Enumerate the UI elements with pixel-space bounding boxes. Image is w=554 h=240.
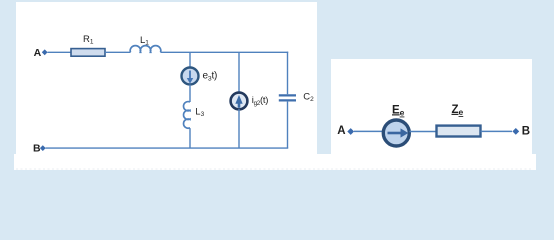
source e3 (182, 68, 199, 85)
bottom wire (46, 147, 289, 149)
node A (right circuit) (337, 125, 354, 137)
node A (left circuit) (34, 47, 48, 59)
left panel (16, 2, 317, 170)
resistor R1 (71, 34, 105, 56)
source ig2 (231, 93, 248, 110)
svg-text:B: B (522, 125, 530, 137)
page background (0, 0, 554, 176)
wire Ee to Ze (410, 131, 437, 133)
right panel (331, 59, 532, 154)
wire L3 to bottom (189, 128, 191, 148)
wire ig2 to bottom (238, 109, 240, 148)
wire A to R1 (48, 51, 72, 53)
wire top to source e3 (189, 52, 191, 68)
impedance Ze (437, 104, 481, 137)
wire C2 to bottom (287, 102, 289, 149)
wire top to source ig2 (238, 52, 240, 93)
wire R1 to L1 (105, 51, 131, 53)
node B (left circuit) (33, 142, 46, 154)
svg-text:A: A (337, 125, 345, 137)
inductor L3 (184, 102, 205, 129)
wire Ze to B (481, 130, 513, 132)
svg-text:B: B (33, 142, 41, 154)
svg-text:A: A (34, 47, 42, 59)
source Ee (383, 120, 409, 146)
wire A to Ee (354, 130, 383, 132)
bottom white band (14, 154, 536, 170)
capacitor C2 (279, 95, 296, 100)
wire top to C2 (287, 52, 289, 95)
wire e3 to L3 (189, 85, 191, 103)
dotted rule (16, 168, 532, 170)
inductor L1 (130, 35, 161, 52)
top wire L1 to C2 branch (161, 51, 289, 53)
node B (right circuit) (512, 125, 530, 137)
